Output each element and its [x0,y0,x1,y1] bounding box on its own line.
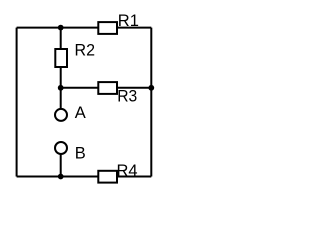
resistor R2 [55,49,67,67]
wire top left segment [17,27,99,29]
junction middle-left node [58,85,64,91]
resistor R4 [98,171,117,183]
junction bottom node [58,174,64,180]
wire middle row left segment [61,87,99,89]
svg-text:R4: R4 [117,162,138,180]
wire center branch upper stub [60,28,62,50]
wire right rail [150,28,152,177]
svg-text:R2: R2 [75,41,96,59]
node B terminal circle [55,142,67,154]
wire bottom left segment [17,176,99,178]
svg-text:R1: R1 [118,12,139,30]
svg-text:A: A [75,104,86,122]
wire middle row right segment [117,87,151,89]
resistor R1 [98,22,117,34]
junction middle-right node [148,85,154,91]
svg-text:R3: R3 [117,88,137,106]
node A terminal circle [55,109,67,121]
wire center branch between R2 and middle node [60,67,62,88]
wire left rail [16,28,18,177]
wire stub to terminal A [60,88,62,109]
wire bottom right segment [117,176,151,178]
wire top right segment [117,27,151,29]
wire stub from terminal B [60,154,62,177]
junction top node [58,25,64,31]
resistor R3 [98,82,117,94]
svg-text:B: B [75,144,86,162]
